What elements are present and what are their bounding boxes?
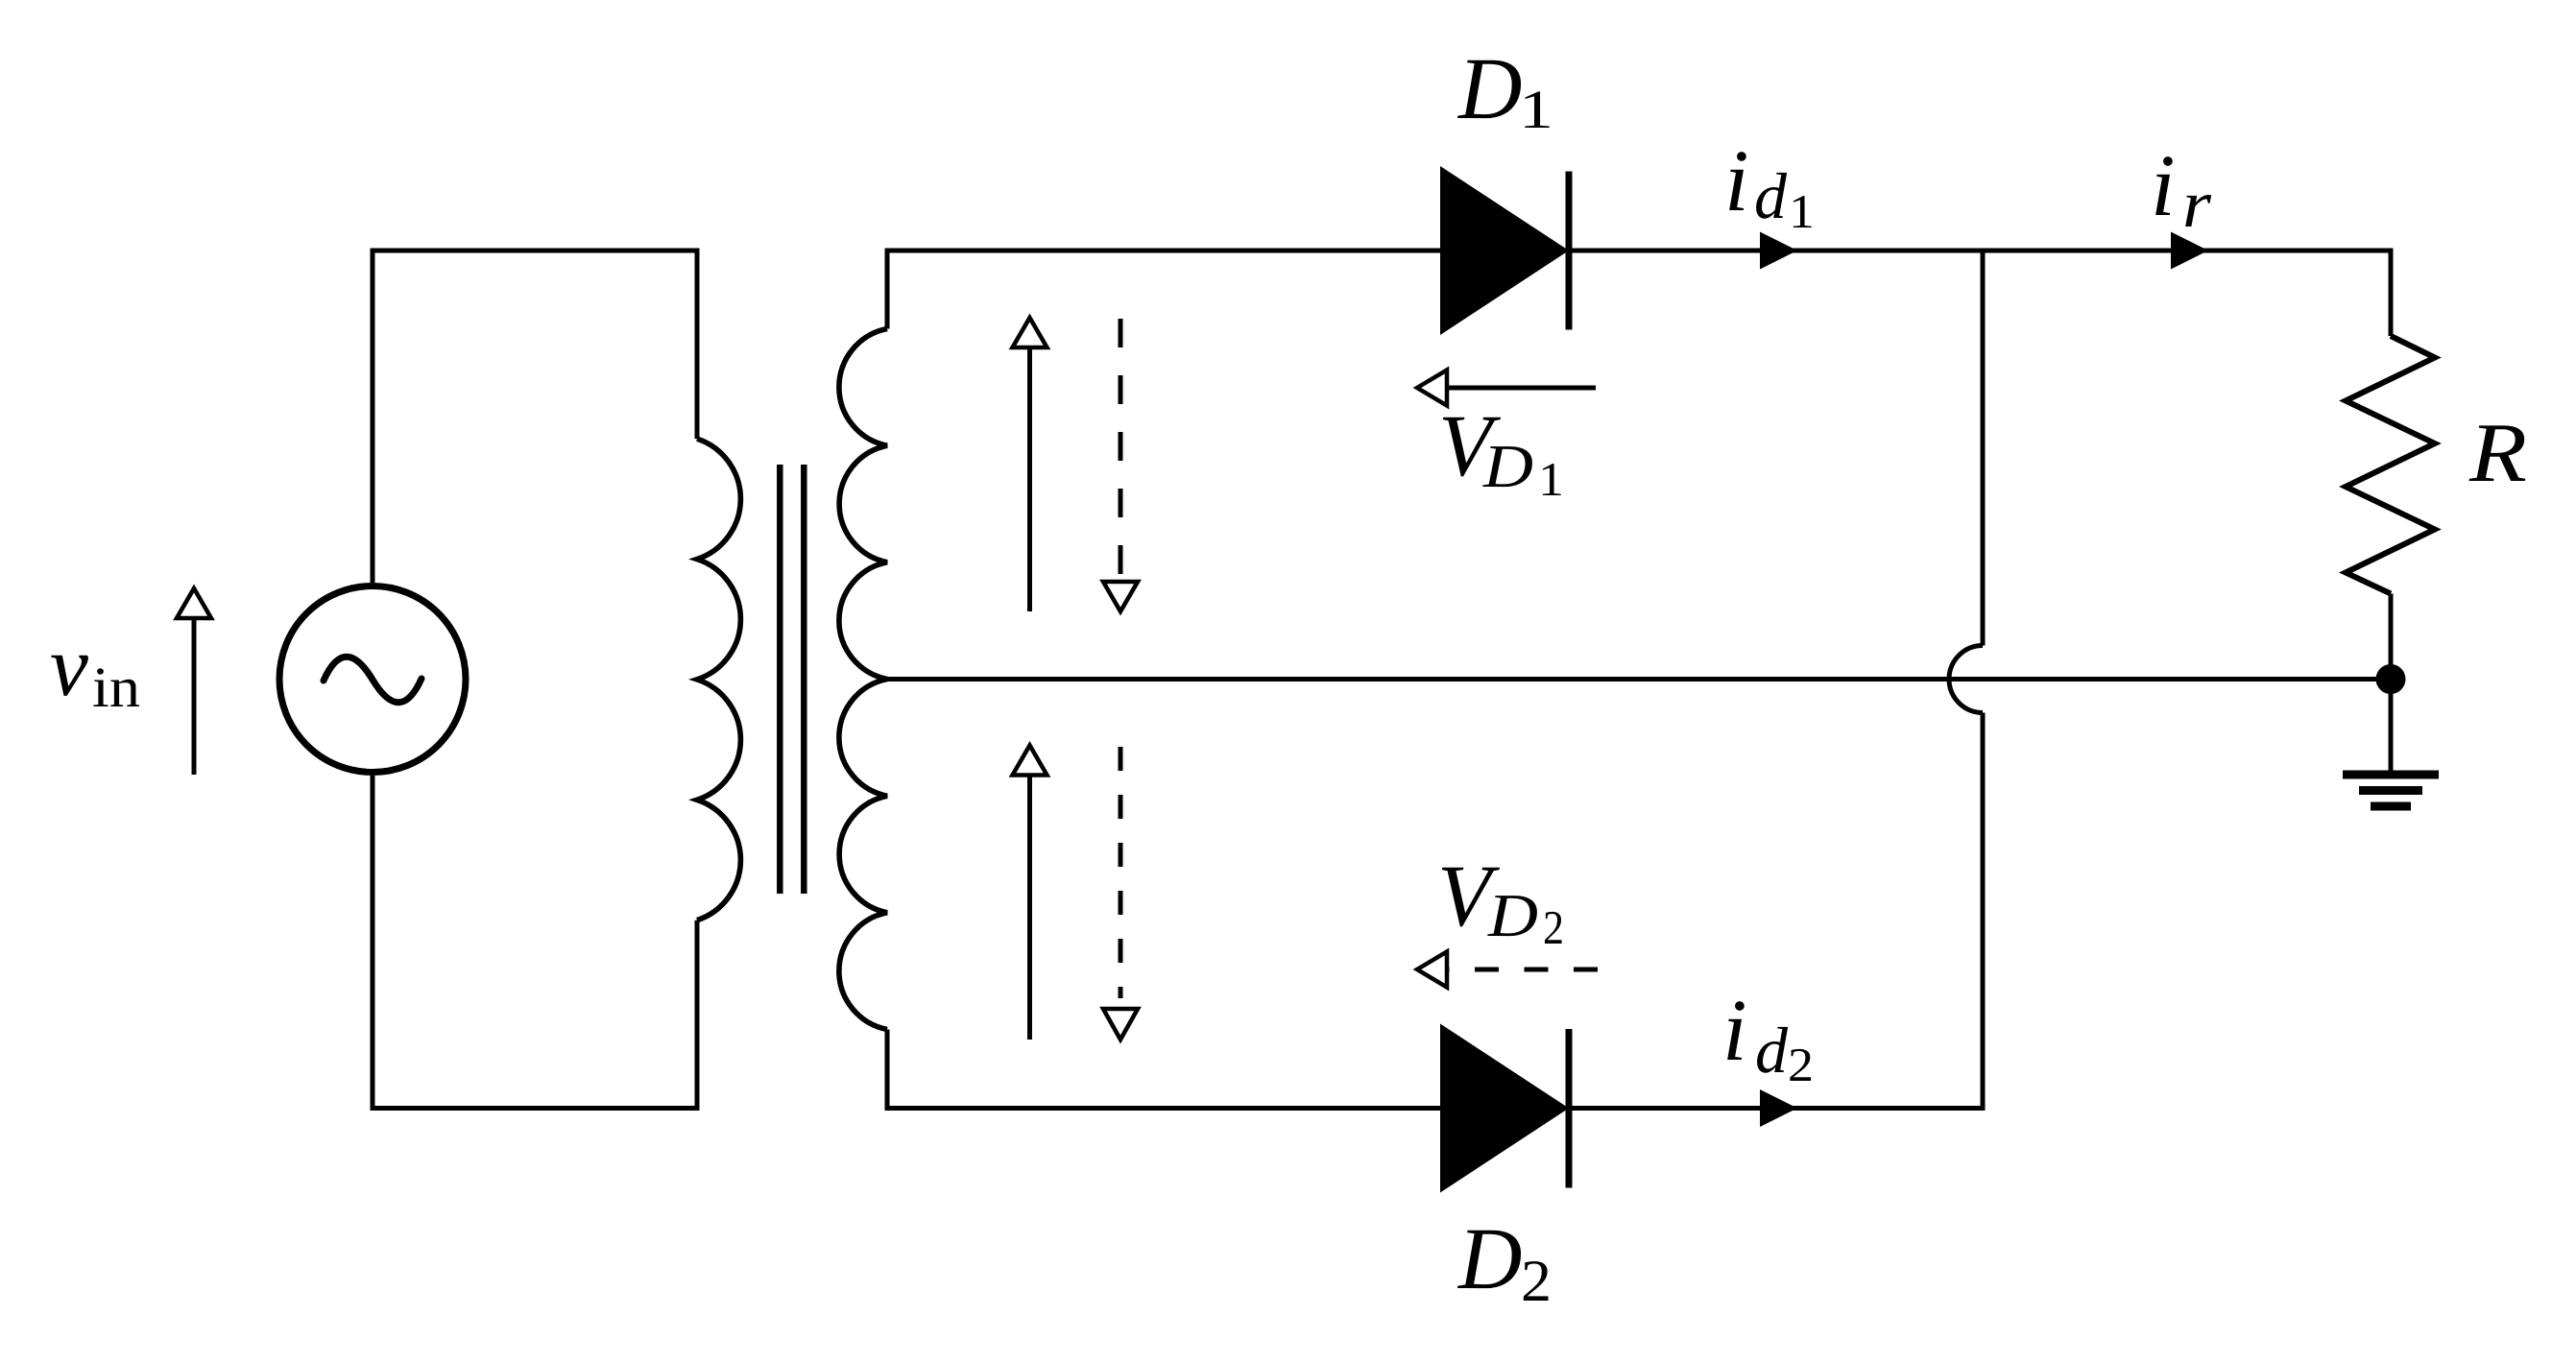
wire top rail D1 cathode to resistor top lead <box>1569 251 2391 336</box>
wire secondary bottom lead and bottom rail to D2 anode <box>887 1030 1440 1109</box>
label vin <box>50 619 140 719</box>
diode D2 cathode bar <box>1566 1029 1573 1188</box>
voltage source vin circle <box>279 586 466 773</box>
wire bottom rail D2 cathode to vertical branch (through hop) <box>1569 713 1983 1109</box>
wire vertical branch upper (top rail to hop) <box>1981 249 1986 646</box>
vin reference arrow head <box>177 588 211 618</box>
svg-text:in: in <box>92 656 140 719</box>
label D2 <box>1457 1209 1552 1314</box>
resistor R zigzag <box>2346 336 2435 594</box>
svg-text:1: 1 <box>1538 452 1564 506</box>
svg-text:i: i <box>1724 132 1749 229</box>
wire resistor bottom lead <box>2389 594 2394 680</box>
svg-text:r: r <box>2182 168 2212 242</box>
svg-text:D: D <box>1487 881 1538 949</box>
transformer primary winding L1 <box>697 439 740 921</box>
label id1 <box>1724 132 1815 238</box>
svg-text:2: 2 <box>1521 1249 1552 1314</box>
label VD2 <box>1437 847 1564 954</box>
diode D1 triangle <box>1440 166 1569 335</box>
label ir <box>2151 136 2212 242</box>
vin reference arrow shaft <box>192 619 197 775</box>
ground symbol <box>2343 775 2439 806</box>
svg-text:D: D <box>1482 432 1533 500</box>
junction node dot <box>2376 664 2406 694</box>
lower dashed flux arrow head <box>1103 1009 1138 1040</box>
upper solid flux arrow <box>1027 348 1032 611</box>
current arrow id1 <box>1760 232 1797 270</box>
transformer secondary lower winding L2b <box>839 680 887 1030</box>
svg-text:2: 2 <box>1788 1038 1814 1091</box>
svg-text:R: R <box>2468 407 2527 500</box>
svg-text:v: v <box>50 619 88 714</box>
wire hop over center rail <box>1949 646 1983 713</box>
VD1 arrow head <box>1417 371 1447 406</box>
svg-text:2: 2 <box>1543 900 1564 954</box>
current arrow ir <box>2171 232 2208 270</box>
diode D2 triangle <box>1440 1024 1569 1193</box>
wire center tap rail <box>887 677 2391 681</box>
diode D1 cathode bar <box>1566 172 1573 330</box>
svg-text:i: i <box>1722 981 1747 1079</box>
current arrow id2 <box>1760 1089 1797 1127</box>
lower solid flux arrow head <box>1013 746 1047 776</box>
transformer secondary upper winding L2a <box>839 329 887 680</box>
transformer core <box>780 465 804 894</box>
lower solid flux arrow <box>1027 777 1032 1040</box>
svg-text:1: 1 <box>1519 80 1553 140</box>
VD1 arrow shaft <box>1449 386 1596 391</box>
wire ground stem <box>2389 680 2394 771</box>
wire primary loop bottom (winding to source) <box>373 776 697 1109</box>
upper solid flux arrow head <box>1013 318 1047 347</box>
VD2 arrow head <box>1417 952 1447 988</box>
wire primary loop top (source to winding) <box>373 251 697 583</box>
label id2 <box>1722 981 1814 1091</box>
svg-text:1: 1 <box>1789 184 1815 238</box>
lower dashed flux arrow <box>1119 747 1123 998</box>
svg-text:d: d <box>1755 1014 1789 1087</box>
upper dashed flux arrow <box>1119 319 1123 576</box>
svg-text:i: i <box>2151 136 2176 234</box>
wire secondary top lead and top rail to D1 anode <box>887 251 1440 329</box>
svg-text:D: D <box>1457 1209 1522 1307</box>
label VD1 <box>1438 396 1564 506</box>
upper dashed flux arrow head <box>1103 582 1138 611</box>
svg-text:D: D <box>1457 39 1522 137</box>
label D1 <box>1457 39 1553 140</box>
svg-text:d: d <box>1754 159 1788 232</box>
VD2 dashed arrow shaft <box>1446 968 1598 972</box>
voltage source sine symbol <box>324 657 421 703</box>
